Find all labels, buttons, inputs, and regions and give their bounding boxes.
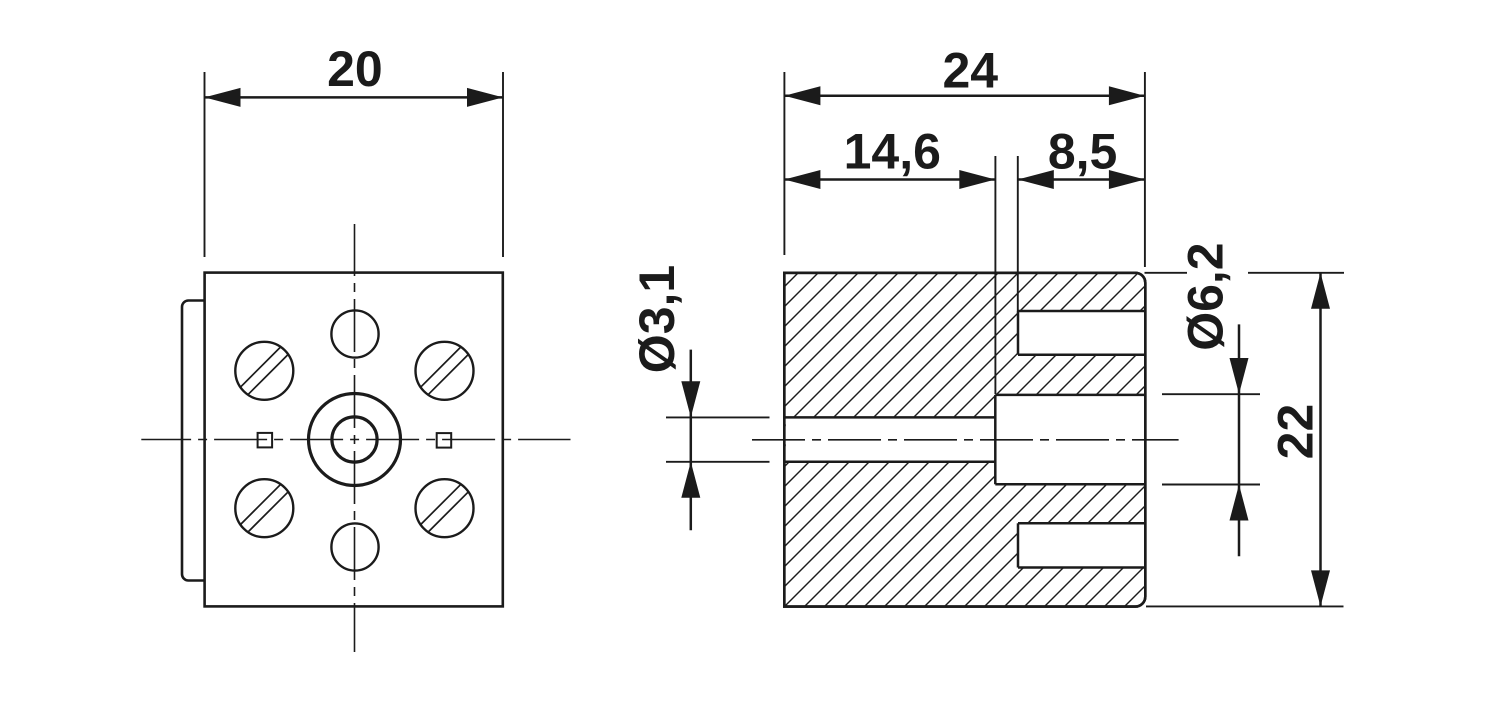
dim 8,5 arrow right: [1109, 170, 1145, 189]
large bore left wall: [994, 395, 997, 484]
dim 14,6 arrow left: [784, 170, 820, 189]
dim 14,6 extension line: [994, 156, 996, 394]
section centerline: [752, 439, 1179, 441]
bottom slot bottom edge: [1018, 566, 1145, 569]
dim 8,5 dimension line: [1018, 178, 1145, 181]
svg-text:20: 20: [327, 41, 383, 97]
top slot bottom edge: [1018, 353, 1145, 356]
dim O3,1 arrow up: [681, 462, 700, 498]
dim 20 extension line right: [502, 72, 504, 257]
vertical centerline: [354, 224, 356, 652]
bottom slot top edge: [1018, 522, 1145, 525]
large bore top edge: [995, 394, 1145, 397]
dim O6,2 arrow down: [1230, 358, 1249, 394]
square housing front face: [205, 273, 503, 607]
dim 24 arrow right: [1109, 86, 1145, 105]
svg-text:24: 24: [942, 43, 998, 99]
dim 8,5 arrow left: [1018, 170, 1054, 189]
dim O3,1 dimension line: [690, 350, 693, 531]
small bore white channel: [786, 417, 996, 461]
top slot white: [1018, 311, 1147, 355]
dim 22 dimension line: [1319, 273, 1322, 607]
svg-text:Ø3,1: Ø3,1: [629, 265, 685, 373]
small bore top edge: [784, 416, 995, 419]
dim 22 extension line top: [1145, 272, 1345, 274]
large bore bottom edge: [995, 483, 1145, 486]
svg-text:8,5: 8,5: [1048, 124, 1118, 180]
svg-text:Ø6,2: Ø6,2: [1178, 242, 1234, 350]
dim O6,2 dimension line: [1238, 324, 1241, 556]
dim 14,6 dimension line: [784, 178, 995, 181]
dim 20 arrow right: [467, 88, 503, 107]
dim 20 arrow left: [205, 88, 241, 107]
dim 14,6 arrow right: [959, 170, 995, 189]
small bore bottom edge: [784, 460, 995, 463]
dim O3,1 arrow down: [681, 381, 700, 417]
dim 8,5 extension line: [1017, 156, 1019, 311]
bottom slot white: [1018, 523, 1147, 567]
dim 24 extension line right: [1144, 72, 1146, 267]
dim O6,2 extension line top: [1162, 393, 1260, 395]
large bore white: [995, 395, 1146, 484]
screw hole bottom-right: [416, 479, 474, 537]
right coding key square: [437, 433, 452, 448]
housing section body: [784, 273, 1145, 607]
svg-text:14,6: 14,6: [844, 124, 941, 180]
central boss outer circle: [309, 394, 401, 486]
screw hole top-left: [235, 342, 293, 400]
dim 20 extension line left: [204, 72, 206, 257]
top contact hole: [331, 310, 378, 357]
bottom contact hole: [331, 523, 378, 570]
dim O3,1 extension line bottom: [666, 461, 770, 463]
screw hole bottom-left: [235, 479, 293, 537]
dim 22 arrow up: [1311, 273, 1330, 309]
horizontal centerline: [141, 439, 570, 441]
dim O6,2 arrow up: [1230, 485, 1249, 521]
dim 22 extension line bottom: [1146, 605, 1344, 607]
screw hole top-right: [416, 342, 474, 400]
dim 20 dimension line: [205, 96, 504, 99]
dim 24 extension line left: [783, 72, 785, 255]
left coding key square: [258, 433, 273, 448]
dim O6,2 extension line bottom: [1162, 484, 1260, 486]
top slot top edge: [1018, 310, 1145, 313]
svg-text:22: 22: [1268, 404, 1324, 460]
central bore inner circle: [332, 417, 377, 462]
body outline re-stroke: [784, 273, 1145, 607]
flange gasket strip (left side of square): [182, 301, 206, 581]
section hatching: [431, 260, 1500, 620]
bottom slot left wall: [1017, 523, 1020, 567]
dim 24 arrow left: [784, 86, 820, 105]
top slot left wall: [1017, 311, 1020, 355]
dim 24 dimension line: [784, 95, 1145, 98]
dim O3,1 extension line top: [666, 416, 770, 418]
dim O6,2 label halo: [1187, 240, 1248, 322]
dim 22 arrow down: [1311, 570, 1330, 606]
